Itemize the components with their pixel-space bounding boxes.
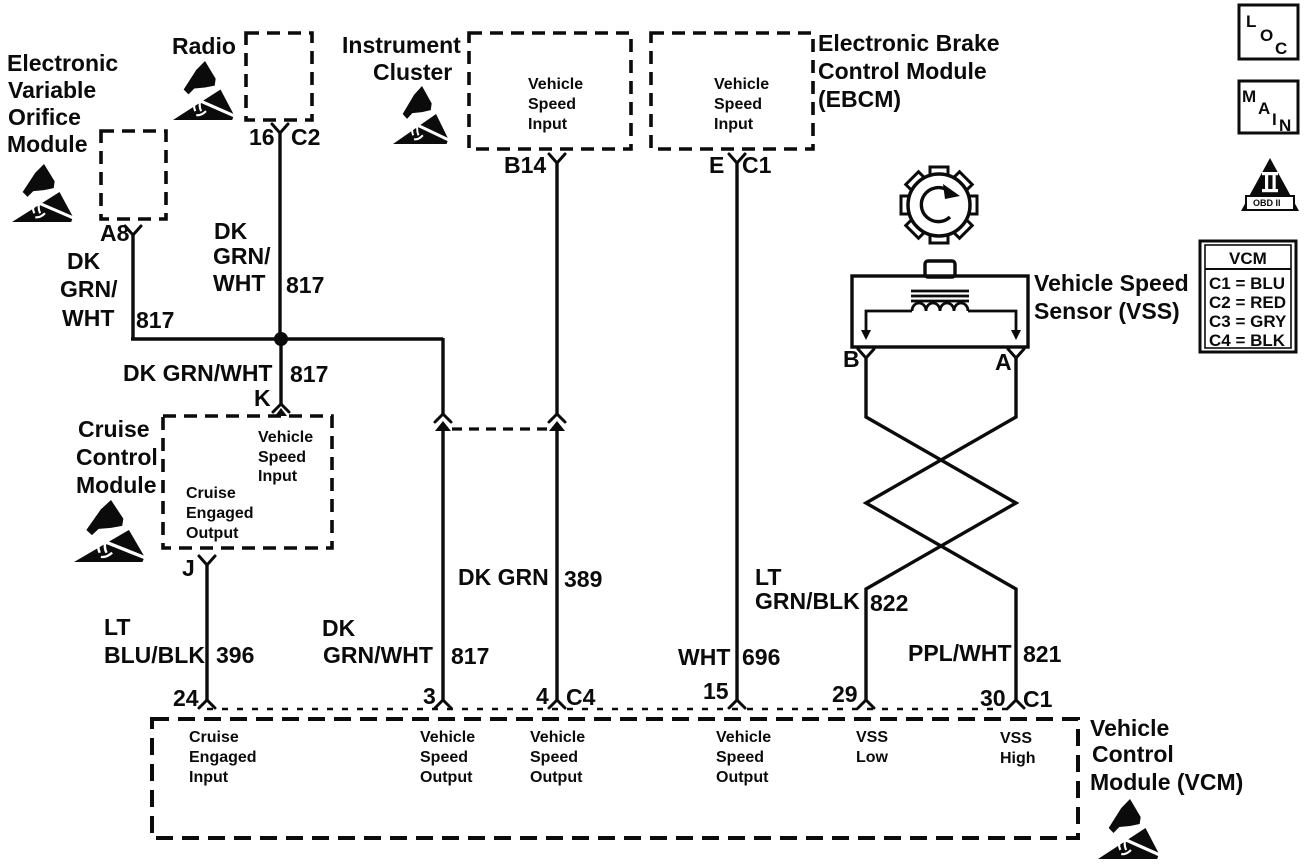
svg-text:16: 16 bbox=[249, 124, 275, 150]
svg-text:Control: Control bbox=[1092, 741, 1174, 767]
svg-text:Engaged: Engaged bbox=[189, 749, 257, 766]
svg-text:696: 696 bbox=[742, 644, 780, 670]
svg-text:Control Module: Control Module bbox=[818, 58, 987, 84]
label Vehicle Speed Output 2 bbox=[530, 729, 585, 786]
wire label DK GRN/WHT 817 (radio) bbox=[213, 218, 324, 298]
svg-text:DK: DK bbox=[67, 248, 101, 274]
wire label DK GRN/WHT 817 (EVO) bbox=[60, 248, 174, 333]
svg-text:C1: C1 bbox=[1023, 686, 1053, 712]
wire drop at x443 upper bbox=[441, 338, 444, 414]
svg-text:O: O bbox=[1260, 26, 1273, 45]
svg-text:396: 396 bbox=[216, 642, 254, 668]
svg-text:Module: Module bbox=[76, 472, 157, 498]
svg-text:Output: Output bbox=[186, 525, 239, 542]
label Vehicle Speed Output 3 bbox=[716, 729, 771, 786]
VSS lead left with arrow bbox=[866, 311, 912, 330]
svg-text:GRN/: GRN/ bbox=[60, 276, 118, 302]
svg-text:High: High bbox=[1000, 750, 1036, 767]
svg-text:15: 15 bbox=[703, 678, 729, 704]
pin 24 fork bbox=[199, 700, 215, 708]
svg-text:3: 3 bbox=[423, 683, 436, 709]
svg-text:Input: Input bbox=[189, 769, 229, 786]
svg-text:Electronic Brake: Electronic Brake bbox=[818, 30, 1000, 56]
VSS coil bbox=[912, 303, 968, 311]
ESD symbol EVO bbox=[12, 164, 76, 222]
label VSS High bbox=[1000, 730, 1036, 767]
svg-text:817: 817 bbox=[290, 361, 328, 387]
svg-text:N: N bbox=[1279, 116, 1291, 135]
pin 30 fork bbox=[1008, 700, 1024, 708]
svg-text:C1: C1 bbox=[742, 152, 772, 178]
inline connector male arrow at 443 bbox=[435, 421, 451, 431]
pin 3 fork bbox=[435, 700, 451, 708]
pin 16 connector Y bbox=[272, 124, 288, 133]
svg-text:389: 389 bbox=[564, 566, 602, 592]
svg-text:C: C bbox=[1275, 39, 1287, 58]
wire 443 down to pin 3 bbox=[441, 431, 444, 701]
svg-text:817: 817 bbox=[451, 643, 489, 669]
pin K arrow bbox=[275, 408, 287, 416]
svg-text:Vehicle: Vehicle bbox=[528, 76, 583, 93]
svg-text:C4 = BLK: C4 = BLK bbox=[1209, 331, 1286, 350]
wire radio down to junction bbox=[278, 133, 281, 339]
wire VSS A twisted to pin 30 bbox=[866, 358, 1016, 701]
svg-text:4: 4 bbox=[536, 683, 549, 709]
svg-text:WHT: WHT bbox=[62, 305, 114, 331]
svg-text:Vehicle: Vehicle bbox=[716, 729, 771, 746]
svg-text:C2 = RED: C2 = RED bbox=[1209, 293, 1286, 312]
svg-text:Vehicle Speed: Vehicle Speed bbox=[1034, 270, 1189, 296]
pin A8 connector Y bbox=[125, 226, 141, 235]
VSS connector stub bbox=[925, 261, 955, 277]
svg-text:Instrument: Instrument bbox=[342, 32, 461, 58]
pin 4 fork bbox=[549, 700, 565, 708]
svg-text:Cluster: Cluster bbox=[373, 59, 452, 85]
label Cruise Engaged Output bbox=[186, 485, 254, 542]
svg-text:Input: Input bbox=[258, 468, 298, 485]
svg-text:DK GRN/WHT: DK GRN/WHT bbox=[123, 360, 272, 386]
svg-text:C2: C2 bbox=[291, 124, 320, 150]
wire label LT GRN/BLK 822 bbox=[755, 564, 908, 616]
Cruise Control Module dashed box bbox=[163, 416, 332, 548]
wire label DK GRN/WHT 817 (junction) bbox=[123, 360, 328, 387]
svg-text:L: L bbox=[1246, 12, 1256, 31]
VSS gear wheel bbox=[885, 151, 992, 258]
svg-text:C4: C4 bbox=[566, 684, 596, 710]
svg-text:BLU/BLK: BLU/BLK bbox=[104, 642, 205, 668]
svg-text:29: 29 bbox=[832, 681, 858, 707]
ESD symbol Instrument Cluster bbox=[393, 86, 451, 144]
svg-text:Output: Output bbox=[420, 769, 473, 786]
svg-text:Speed: Speed bbox=[528, 96, 576, 113]
label Vehicle Speed Input (EBCM) bbox=[714, 76, 769, 133]
label Vehicle Speed Input (cruise) bbox=[258, 429, 313, 485]
pin E connector Y bbox=[729, 154, 745, 163]
svg-text:GRN/BLK: GRN/BLK bbox=[755, 588, 860, 614]
wire label WHT 696 bbox=[678, 644, 780, 670]
inline connector female at 556 bbox=[549, 414, 565, 422]
svg-text:Cruise: Cruise bbox=[189, 729, 239, 746]
pin B14 connector Y bbox=[549, 154, 565, 163]
svg-text:LT: LT bbox=[104, 614, 130, 640]
svg-text:Module (VCM): Module (VCM) bbox=[1090, 769, 1243, 795]
symbol LOC box bbox=[1239, 5, 1298, 59]
label Cruise Engaged Input bbox=[189, 729, 257, 786]
wire junction down to K bbox=[279, 339, 282, 404]
svg-text:DK: DK bbox=[214, 218, 248, 244]
wire label DK GRN/WHT 817 (lower) bbox=[322, 615, 489, 669]
svg-text:PPL/WHT: PPL/WHT bbox=[908, 640, 1012, 666]
svg-text:Output: Output bbox=[530, 769, 583, 786]
svg-text:VCM: VCM bbox=[1229, 249, 1267, 268]
svg-text:A8: A8 bbox=[100, 220, 130, 246]
svg-text:WHT: WHT bbox=[213, 270, 265, 296]
svg-text:Cruise: Cruise bbox=[78, 416, 150, 442]
svg-text:K: K bbox=[254, 385, 271, 411]
pin 15 fork bbox=[729, 700, 745, 708]
svg-text:I: I bbox=[1272, 110, 1277, 129]
svg-text:M: M bbox=[1242, 87, 1256, 106]
svg-text:Engaged: Engaged bbox=[186, 505, 254, 522]
svg-text:Speed: Speed bbox=[420, 749, 468, 766]
svg-text:Sensor (VSS): Sensor (VSS) bbox=[1034, 298, 1180, 324]
svg-text:Cruise: Cruise bbox=[186, 485, 236, 502]
svg-text:C1 = BLU: C1 = BLU bbox=[1209, 274, 1285, 293]
pin K connector fork bbox=[273, 404, 289, 412]
svg-text:Vehicle: Vehicle bbox=[714, 76, 769, 93]
junction dot bbox=[274, 332, 288, 346]
svg-text:817: 817 bbox=[286, 272, 324, 298]
svg-text:A: A bbox=[1258, 99, 1270, 118]
svg-text:Input: Input bbox=[714, 116, 754, 133]
svg-text:Vehicle: Vehicle bbox=[258, 429, 313, 446]
svg-text:821: 821 bbox=[1023, 641, 1062, 667]
svg-text:E: E bbox=[709, 152, 724, 178]
wire B14 down bbox=[555, 163, 558, 414]
svg-text:Variable: Variable bbox=[8, 77, 96, 103]
wire VSS B twisted to pin 29 bbox=[866, 358, 1016, 701]
VSS core lines bbox=[911, 291, 969, 301]
svg-text:DK GRN: DK GRN bbox=[458, 564, 549, 590]
Radio dashed box bbox=[246, 33, 312, 120]
node: EBCM label bbox=[818, 30, 1000, 112]
VCM pin header dotted line bbox=[207, 708, 1017, 711]
pin A connector Y bbox=[1008, 349, 1024, 358]
svg-text:VSS: VSS bbox=[856, 729, 888, 746]
svg-text:Electronic: Electronic bbox=[7, 50, 118, 76]
VCM dashed box bbox=[152, 719, 1078, 838]
svg-text:Input: Input bbox=[528, 116, 568, 133]
label Vehicle Speed Input (cluster) bbox=[528, 76, 583, 133]
EVO module dashed box bbox=[101, 131, 166, 219]
svg-text:Module: Module bbox=[7, 131, 88, 157]
ESD symbol Cruise Control bbox=[74, 500, 148, 562]
svg-text:GRN/WHT: GRN/WHT bbox=[323, 642, 433, 668]
svg-text:A: A bbox=[995, 349, 1012, 375]
wire label DK GRN 389 bbox=[458, 564, 602, 592]
VSS lead right with arrow bbox=[968, 311, 1016, 330]
svg-text:822: 822 bbox=[870, 590, 908, 616]
svg-text:Speed: Speed bbox=[258, 449, 306, 466]
svg-text:GRN/: GRN/ bbox=[213, 243, 271, 269]
svg-text:Speed: Speed bbox=[530, 749, 578, 766]
gear rotation arrow bbox=[921, 188, 950, 222]
svg-text:Speed: Speed bbox=[714, 96, 762, 113]
svg-text:LT: LT bbox=[755, 564, 781, 590]
svg-text:C3 = GRY: C3 = GRY bbox=[1209, 312, 1287, 331]
wire E down to pin 15 bbox=[735, 163, 738, 701]
svg-text:Output: Output bbox=[716, 769, 769, 786]
inline connector tie dashed bbox=[452, 427, 548, 430]
svg-text:B14: B14 bbox=[504, 152, 546, 178]
pin J connector Y bbox=[199, 556, 215, 565]
svg-text:DK: DK bbox=[322, 615, 356, 641]
svg-text:(EBCM): (EBCM) bbox=[818, 86, 901, 112]
VSS sensor box bbox=[852, 276, 1028, 347]
svg-text:24: 24 bbox=[173, 685, 199, 711]
inline connector female at 443 bbox=[435, 414, 451, 422]
node: Instrument Cluster label bbox=[342, 32, 461, 85]
svg-text:VSS: VSS bbox=[1000, 730, 1032, 747]
VCM connector color table bbox=[1200, 241, 1296, 352]
label VSS Low bbox=[856, 729, 889, 766]
ESD symbol VCM bbox=[1098, 799, 1162, 859]
svg-text:Orifice: Orifice bbox=[8, 104, 81, 130]
pin B connector Y bbox=[858, 349, 874, 358]
wire label PPL/WHT 821 bbox=[908, 640, 1062, 667]
svg-text:Radio: Radio bbox=[172, 33, 236, 59]
svg-text:WHT: WHT bbox=[678, 644, 730, 670]
svg-text:Speed: Speed bbox=[716, 749, 764, 766]
node: Cruise Control Module label bbox=[76, 416, 158, 498]
node: VCM label bbox=[1090, 715, 1243, 795]
wire 556 down to pin 4 bbox=[555, 431, 558, 701]
wire J down to pin 24 bbox=[205, 565, 208, 701]
svg-text:Vehicle: Vehicle bbox=[530, 729, 585, 746]
ESD symbol Radio bbox=[173, 61, 237, 120]
symbol OBD II triangle bbox=[1241, 158, 1299, 211]
svg-text:817: 817 bbox=[136, 307, 174, 333]
svg-text:Control: Control bbox=[76, 444, 158, 470]
svg-text:J: J bbox=[182, 555, 195, 581]
node: VSS label bbox=[1034, 270, 1189, 324]
wire label LT BLU/BLK 396 bbox=[104, 614, 254, 668]
inline connector male arrow at 556 bbox=[549, 421, 565, 431]
wire EVO horizontal to junction and to vertical drop bbox=[131, 337, 443, 340]
node: EVO module label bbox=[7, 50, 118, 157]
pin 29 fork bbox=[858, 700, 874, 708]
svg-text:Vehicle: Vehicle bbox=[1090, 715, 1169, 741]
wire A8 down bbox=[131, 235, 134, 338]
svg-text:Low: Low bbox=[856, 749, 889, 766]
Instrument Cluster dashed box bbox=[469, 33, 631, 149]
symbol MAIN box bbox=[1239, 81, 1298, 135]
label Vehicle Speed Output 1 bbox=[420, 729, 475, 786]
svg-text:30: 30 bbox=[980, 685, 1006, 711]
EBCM dashed box bbox=[651, 33, 813, 149]
svg-text:Vehicle: Vehicle bbox=[420, 729, 475, 746]
svg-text:OBD II: OBD II bbox=[1253, 198, 1281, 208]
